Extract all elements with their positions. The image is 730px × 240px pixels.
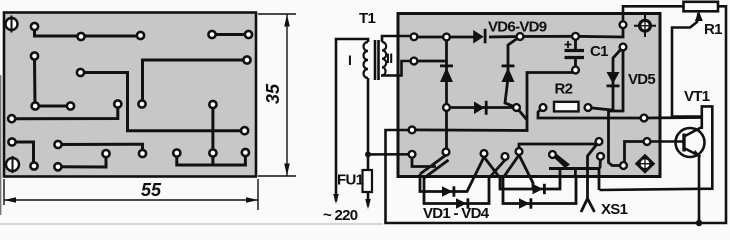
svg-text:I: I <box>348 52 351 68</box>
svg-text:VD6-VD9: VD6-VD9 <box>488 19 547 36</box>
svg-text:FU1: FU1 <box>337 172 364 189</box>
svg-text:C1: C1 <box>590 43 608 60</box>
svg-text:R2: R2 <box>555 81 573 98</box>
svg-text:VD1 - VD4: VD1 - VD4 <box>423 205 490 222</box>
svg-text:VT1: VT1 <box>684 88 710 105</box>
svg-text:~ 220: ~ 220 <box>323 207 358 224</box>
svg-text:II: II <box>386 50 392 66</box>
svg-text:55: 55 <box>141 180 162 200</box>
svg-text:R1: R1 <box>704 21 722 38</box>
svg-text:XS1: XS1 <box>601 201 628 218</box>
svg-text:35: 35 <box>263 83 283 104</box>
svg-text:T1: T1 <box>359 10 375 27</box>
svg-text:VD5: VD5 <box>628 71 655 88</box>
